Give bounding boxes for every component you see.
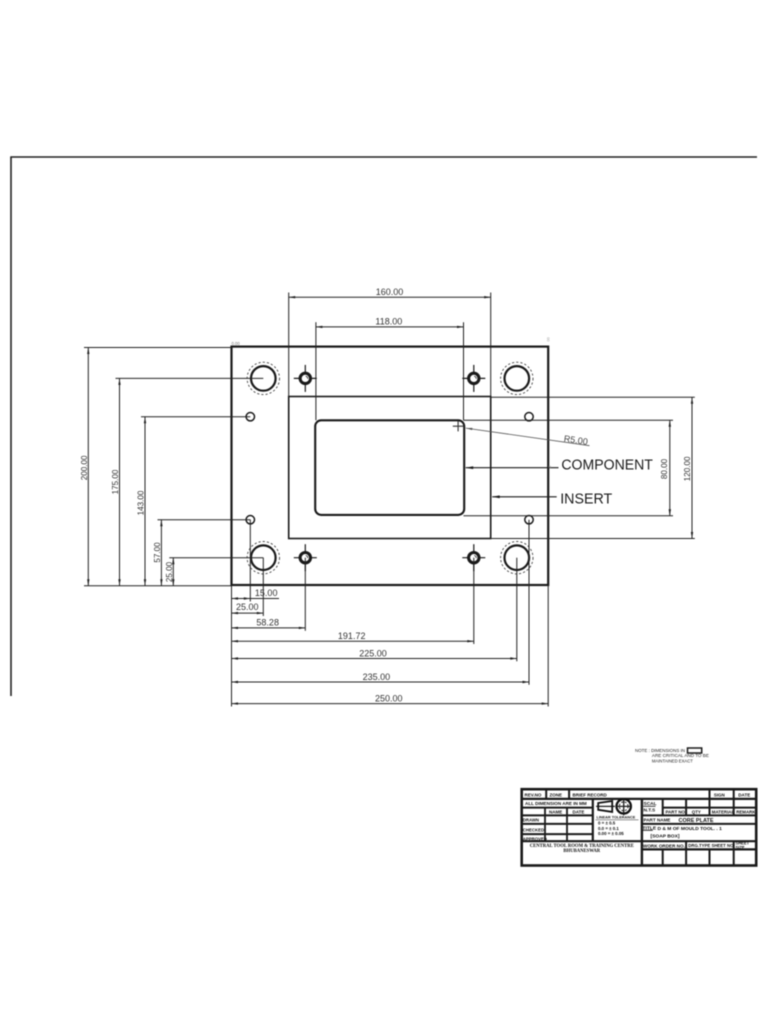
svg-text:250.00: 250.00	[375, 693, 403, 703]
svg-text:COMPONENT: COMPONENT	[561, 456, 653, 473]
svg-text:NAME: NAME	[549, 810, 562, 815]
svg-text:143.00: 143.00	[137, 490, 146, 515]
svg-text:200.00: 200.00	[80, 455, 89, 480]
svg-text:80.00: 80.00	[660, 458, 669, 479]
svg-text:00: 00	[547, 337, 551, 341]
svg-text:REMARK: REMARK	[736, 810, 756, 815]
svg-text:120.00: 120.00	[683, 456, 692, 481]
svg-text:REV.NO: REV.NO	[525, 792, 542, 797]
svg-text:0.00: 0.00	[232, 341, 241, 346]
svg-text:INSERT: INSERT	[560, 490, 612, 507]
svg-text:25.00: 25.00	[165, 561, 174, 582]
svg-text:MATERIAL: MATERIAL	[712, 810, 735, 815]
svg-text:DRAWN: DRAWN	[523, 817, 539, 822]
svg-text:58.28: 58.28	[256, 618, 279, 628]
svg-text:118.00: 118.00	[375, 317, 402, 327]
svg-text:MAINTAINED EXACT: MAINTAINED EXACT	[652, 758, 693, 764]
svg-text:ZONE: ZONE	[550, 792, 563, 797]
svg-text:CORE PLATE: CORE PLATE	[679, 818, 714, 824]
svg-text:APPROVED: APPROVED	[523, 836, 547, 841]
svg-text:225.00: 225.00	[359, 648, 387, 658]
svg-text:SIGN: SIGN	[714, 792, 725, 797]
svg-text:PART NAME: PART NAME	[644, 818, 671, 823]
svg-text:ALL DIMENSION ARE IN MM: ALL DIMENSION ARE IN MM	[525, 801, 587, 806]
svg-text:160.00: 160.00	[376, 287, 404, 297]
svg-text:BRIEF RECORD: BRIEF RECORD	[573, 792, 608, 797]
svg-text:[SOAP BOX]: [SOAP BOX]	[651, 834, 680, 840]
svg-text:ARE CRITICAL AND TO BE: ARE CRITICAL AND TO BE	[652, 753, 709, 759]
svg-text:0.00 = ± 0.05: 0.00 = ± 0.05	[598, 831, 624, 836]
svg-text:175.00: 175.00	[111, 469, 120, 494]
svg-text:WORK ORDER NO.: WORK ORDER NO.	[643, 843, 685, 848]
svg-text:57.00: 57.00	[153, 542, 162, 563]
svg-text:D & M OF MOULD TOOL. . 1: D & M OF MOULD TOOL. . 1	[658, 826, 723, 832]
svg-text:CHECKED: CHECKED	[523, 827, 544, 832]
svg-text:15.00: 15.00	[255, 588, 278, 598]
svg-text:DRG.TYPE SHEET NO: DRG.TYPE SHEET NO	[688, 843, 734, 848]
svg-text:LINEAR TOLERANCE: LINEAR TOLERANCE	[597, 816, 636, 820]
svg-text:191.72: 191.72	[338, 631, 366, 641]
svg-text:NOTE : DIMENSIONS IN: NOTE : DIMENSIONS IN	[635, 748, 685, 754]
svg-text:DATE: DATE	[738, 792, 750, 797]
svg-text:0 = ± 0.5: 0 = ± 0.5	[598, 820, 616, 825]
svg-text:BHUBANESWAR: BHUBANESWAR	[563, 849, 600, 854]
svg-text:235.00: 235.00	[363, 672, 391, 682]
svg-text:25.00: 25.00	[236, 602, 259, 612]
svg-text:SIZE: SIZE	[736, 845, 745, 850]
svg-text:N.T.S: N.T.S	[644, 808, 657, 814]
svg-text:DATE: DATE	[573, 810, 585, 815]
svg-text:PART NO.: PART NO.	[666, 810, 687, 815]
svg-text:QTY: QTY	[692, 810, 701, 815]
